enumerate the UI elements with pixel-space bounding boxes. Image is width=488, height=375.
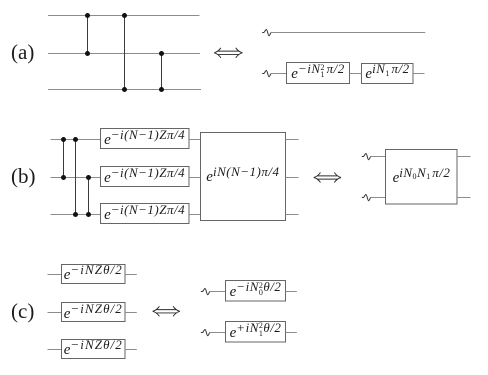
CZ gate qubits 0-1 vertical wire [87,16,89,54]
control dot q2 col3 [159,87,164,92]
gate label e^(-i(N-1)Z pi/4) qubit 0 [104,131,185,149]
gate label e^(i N1 pi/2) [365,65,409,83]
wire (b) qubit 1 [51,177,101,179]
wire (b) qubit 2 [51,214,101,216]
control dot q1 col3 [159,51,164,56]
gate label e^(-iNZ theta/2) row 0 [64,266,123,284]
wire mode 1 into gate [271,73,287,75]
gate box exp(-iNZ theta/2) row 1 [62,303,126,322]
squiggle mode wire 0 (a right) [262,30,271,36]
gate box exp(-i(N-1)Z pi/4) qubit 2 [101,204,190,224]
control dot q0 col2 [122,13,127,18]
control dot (b) q2 col3 [86,212,91,217]
gate box exp(i N0 N1 pi/2) [386,150,458,205]
wire mode 1 into gate (b right) [370,197,385,199]
exit wire q2 (b) [286,214,299,216]
exit wire mode 1 (b right) [457,197,471,199]
exit wire row 0 (c right) [286,291,297,293]
gate label e^(-i(N-1)Z pi/4) qubit 1 [104,169,185,187]
wire into gate row 1 (c left) [48,312,62,314]
wire (a) qubit 2 [48,89,201,91]
exit wire row 1 (c right) [286,332,297,334]
exit wire q1 (b) [286,177,299,179]
wire between gates [350,73,362,75]
gate box row 1 (c right) [226,322,286,343]
control dot (b) q2 col2 [73,212,78,217]
exit wire q0 (b) [286,139,299,141]
control dot q0 col1 [85,13,90,18]
wire q2 to big gate [189,214,201,216]
control dot q2 col2 [122,87,127,92]
wire (b) qubit 0 [51,139,101,141]
gate label e^(-iNZ theta/2) row 2 [64,341,123,359]
subcircuit label (c) [11,299,34,324]
wire mode 0 (a right) [271,32,426,34]
squiggle mode wire row 0 (c right) [201,289,210,295]
CZ gate qubits 1-2 vertical wire (b) [88,178,90,215]
CZ gate qubits 0-2 vertical wire (b) [75,140,77,215]
exit wire mode 0 (b right) [457,156,471,158]
control dot (b) q1 col3 [86,175,91,180]
gate label e^(+i N1^2 theta/2) [230,324,282,342]
squiggle mode wire row 1 (c right) [201,330,210,336]
gate label e^(-i(N-1)Z pi/4) qubit 2 [104,206,185,224]
exit wire row 2 (c left) [125,349,137,351]
equivalence arrow (c) [153,306,180,316]
control dot (b) q0 col1 [61,137,66,142]
wire q0 to big gate [189,139,201,141]
squiggle mode wire 0 (b right) [362,154,371,160]
squiggle mode wire 1 (a right) [262,71,271,77]
subcircuit label (b) [11,164,36,189]
equivalence arrow (b) [314,173,341,183]
equivalence arrow (a) [214,48,242,58]
squiggle mode wire 1 (b right) [362,195,371,201]
wire mode 0 into gate (b right) [370,156,385,158]
CZ gate qubits 0-2 vertical wire [124,16,126,90]
control dot q1 col1 [85,51,90,56]
wire into gate row 0 (c left) [48,274,62,276]
gate label e^(i N0 N1 pi/2) [393,169,451,187]
gate box exp(-iNZ theta/2) row 2 [62,340,126,359]
gate box exp(-i(N-1)Z pi/4) qubit 0 [101,129,190,149]
gate box exp(i N1 pi/2) [362,64,414,84]
gate label e^(-i N1^2 pi/2) [291,65,344,83]
gate label e^(iN(N-1) pi/4) [206,168,279,186]
CZ gate qubits 1-2 vertical wire [161,54,163,90]
exit wire (a right) [413,73,425,75]
CZ gate qubits 0-1 vertical wire (b) [63,140,65,178]
gate box exp(-i(N-1)Z pi/4) qubit 1 [101,167,190,187]
control dot (b) q1 col1 [61,175,66,180]
exit wire row 1 (c left) [125,312,137,314]
wire into gate row 0 (c right) [210,291,226,293]
gate box exp(-i N1^2 pi/2) [287,63,350,84]
gate label e^(-i N0^2 theta/2) [230,283,282,301]
wire (a) qubit 1 [48,53,200,55]
subcircuit label (a) [11,40,34,65]
gate label e^(-iNZ theta/2) row 1 [64,305,123,323]
gate box exp(-iNZ theta/2) row 0 [62,265,126,284]
exit wire row 0 (c left) [125,274,137,276]
wire into gate row 1 (c right) [210,332,226,334]
gate box row 0 (c right) [226,281,286,302]
wire into gate row 2 (c left) [48,349,62,351]
control dot (b) q0 col2 [73,137,78,142]
wire q1 to big gate [189,177,201,179]
big gate box exp(iN(N-1) pi/4) [201,133,286,221]
wire (a) qubit 0 [48,15,200,17]
